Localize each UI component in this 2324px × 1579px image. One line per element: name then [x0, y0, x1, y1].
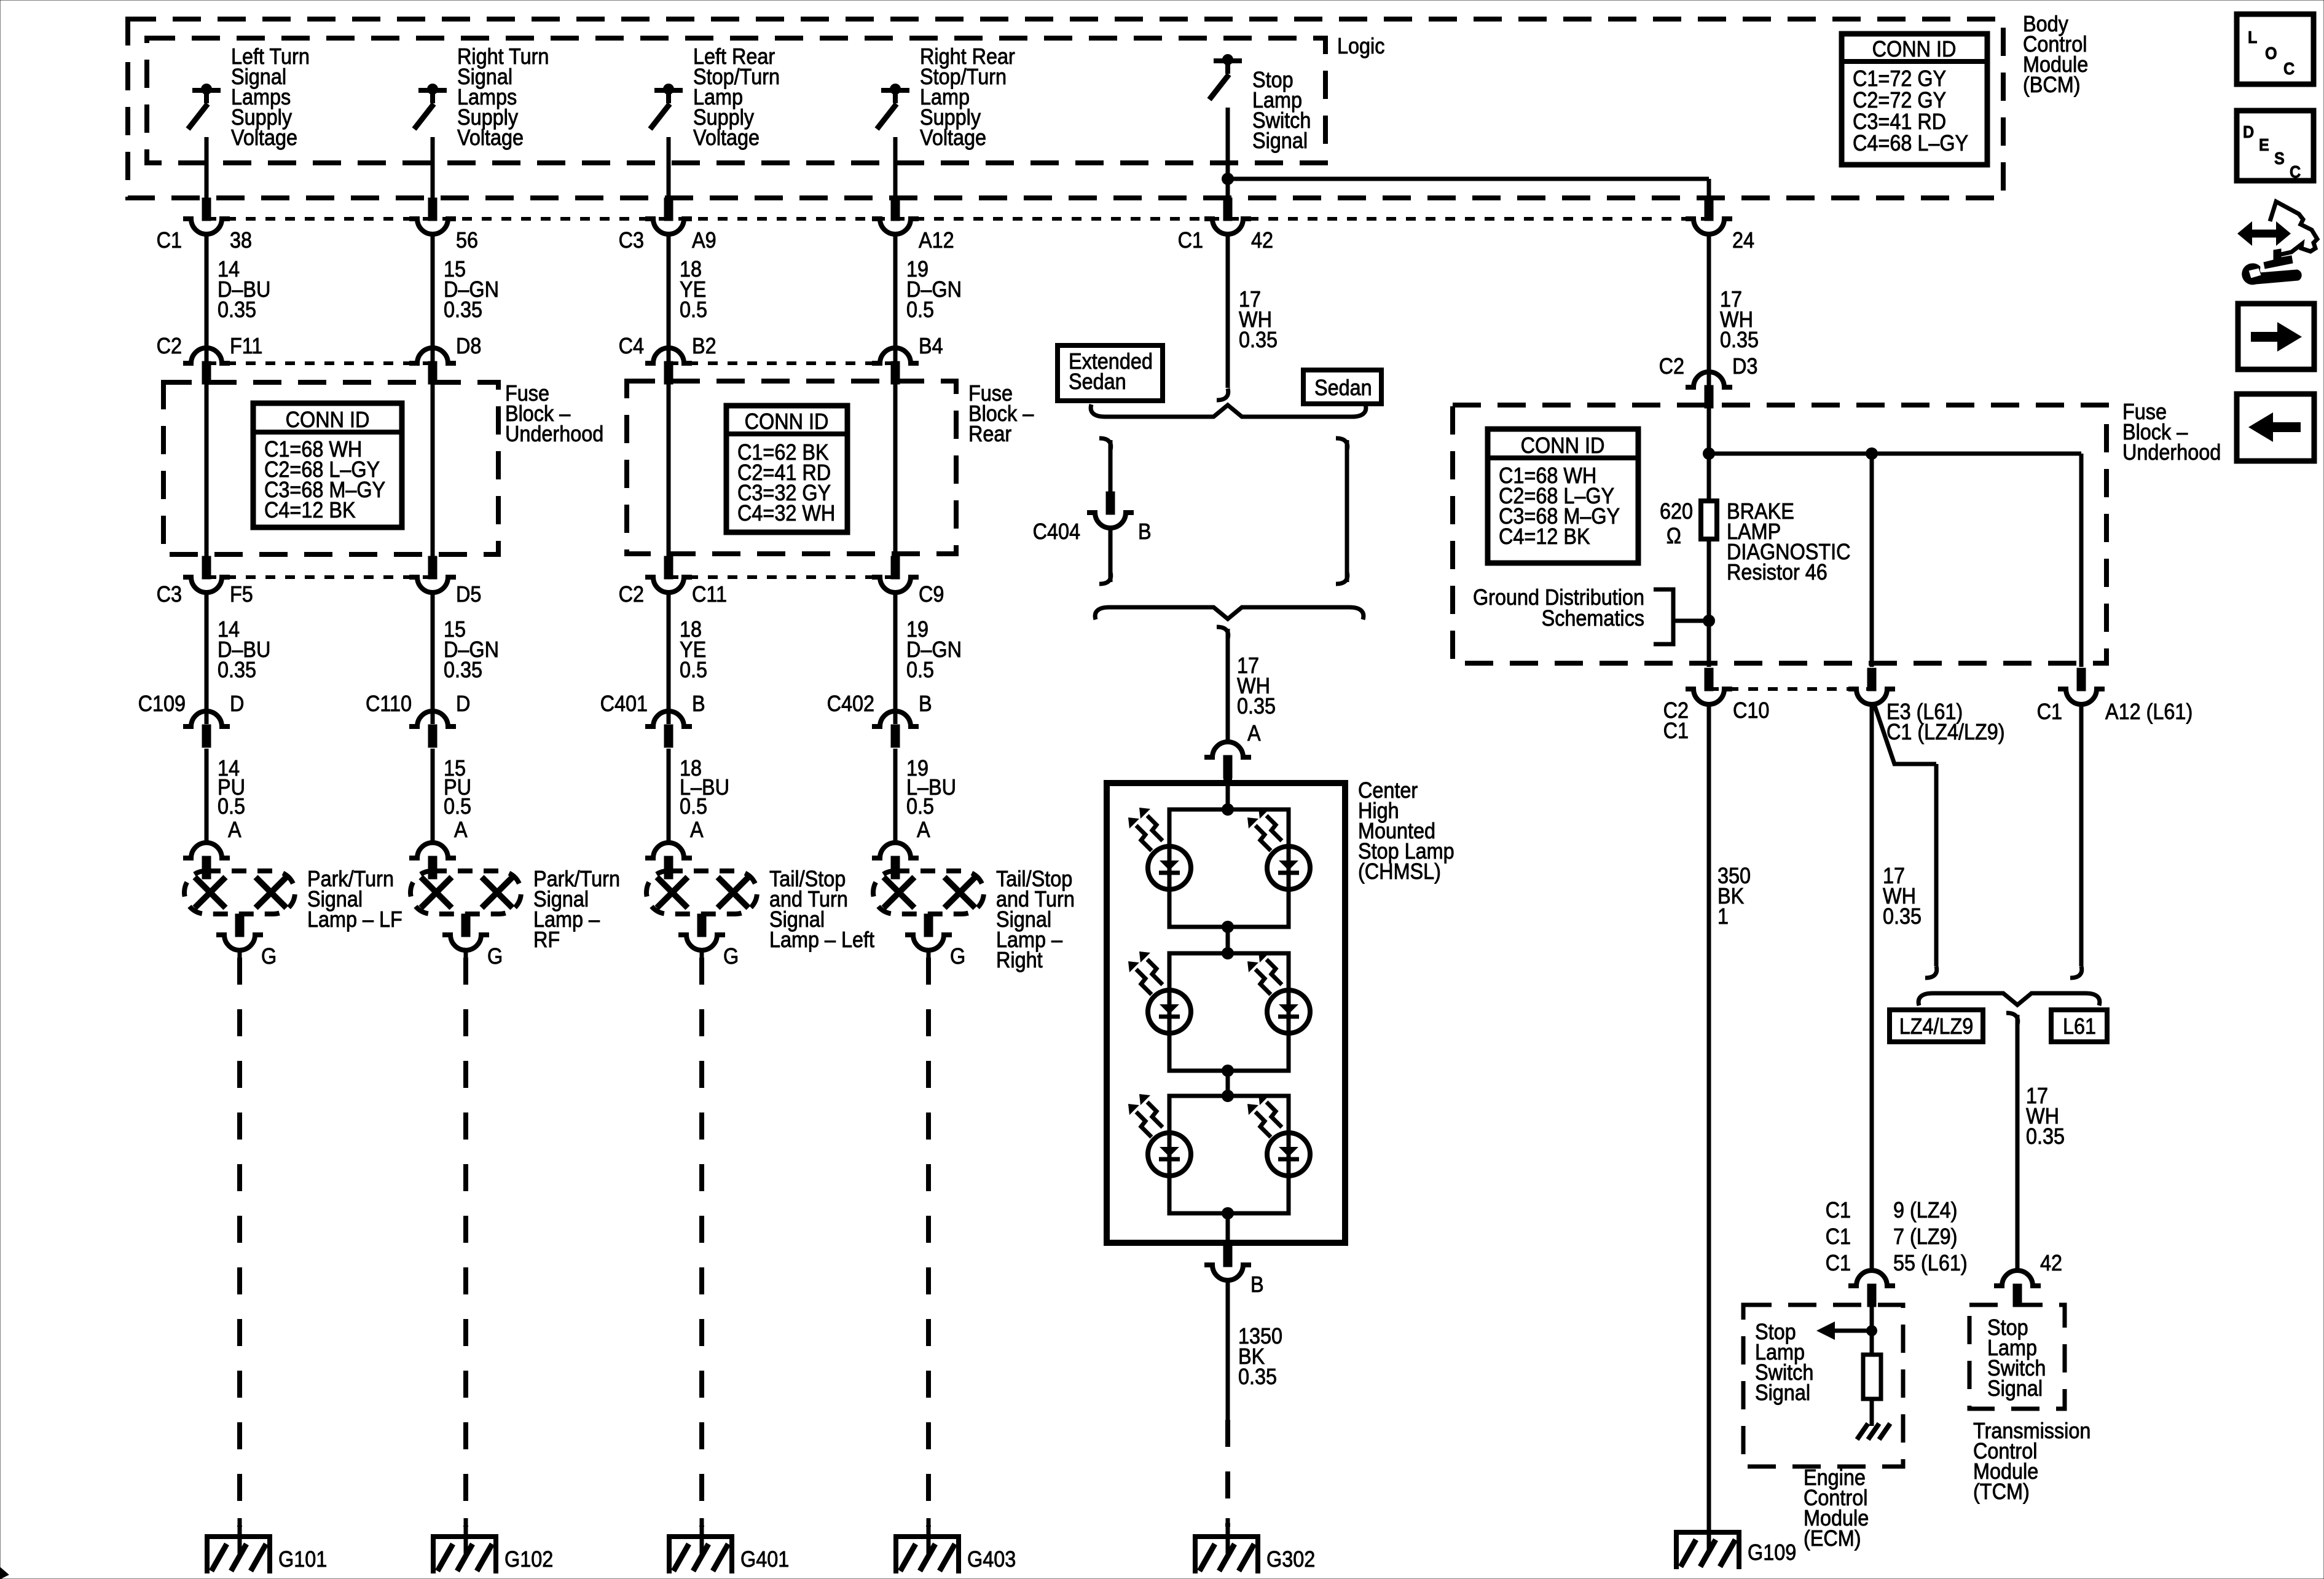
- svg-text:G109: G109: [1748, 1540, 1796, 1565]
- svg-text:Signal: Signal: [1252, 128, 1308, 153]
- connector F11 into fuse block (dome): [183, 348, 230, 363]
- BCM connector row dotted line: [206, 217, 1709, 221]
- Extended Sedan callout box: [1058, 345, 1163, 401]
- connector B4 into fuse block (dome): [872, 348, 919, 363]
- extended sedan branch wire lower: [1109, 527, 1113, 582]
- svg-text:620: 620: [1660, 499, 1693, 524]
- lamp 3 filament X right: [718, 877, 748, 908]
- svg-text:Signal: Signal: [1987, 1376, 2043, 1401]
- svg-text:LZ4/LZ9: LZ4/LZ9: [1899, 1014, 1974, 1039]
- lamp 1 filament X left: [195, 877, 226, 908]
- junction dot bottom cell 1: [1222, 921, 1234, 933]
- svg-text:A9: A9: [692, 228, 716, 253]
- inline connector C110 (dome): [409, 711, 456, 726]
- svg-text:Voltage: Voltage: [693, 125, 760, 150]
- svg-text:RF: RF: [533, 927, 560, 952]
- connector A into lamp 4 (dome): [872, 843, 919, 858]
- svg-text:G403: G403: [967, 1547, 1016, 1572]
- ground G403: [893, 1534, 961, 1539]
- svg-text:Rear: Rear: [968, 422, 1011, 446]
- ground distribution bracket: [1654, 589, 1673, 644]
- svg-text:C401: C401: [600, 691, 648, 716]
- svg-text:Signal: Signal: [1755, 1380, 1810, 1405]
- svg-text:C3: C3: [157, 582, 182, 607]
- svg-text:Logic: Logic: [1337, 34, 1384, 58]
- svg-text:24: 24: [1732, 228, 1754, 253]
- svg-text:(BCM): (BCM): [2023, 73, 2081, 97]
- svg-text:A: A: [917, 817, 930, 842]
- svg-text:9 (LZ4): 9 (LZ4): [1893, 1198, 1957, 1223]
- row3 connector dotted line rear: [669, 575, 895, 579]
- lamp 2 dashed capsule: [410, 871, 521, 914]
- svg-text:Underhood: Underhood: [2122, 440, 2221, 465]
- svg-text:0.5: 0.5: [218, 794, 245, 819]
- extended sedan branch wire: [1109, 440, 1113, 492]
- inline connector C402 (dome): [872, 711, 919, 726]
- wire hook below merge: [1217, 627, 1228, 639]
- svg-text:F5: F5: [230, 582, 253, 607]
- svg-text:C1: C1: [1663, 719, 1689, 743]
- connector A into lamp 2 (dome): [409, 843, 456, 858]
- CHMSL box: [1107, 783, 1345, 1243]
- svg-text:CONN ID: CONN ID: [1521, 433, 1605, 458]
- ground G109: [1674, 1530, 1741, 1535]
- switch S3 (Left Rear Stop/Turn supply): [654, 88, 683, 93]
- LED cell 1 loop: [1169, 809, 1289, 927]
- svg-text:C402: C402: [827, 691, 874, 716]
- wire segment below BCM (19 D–GN): [893, 233, 898, 362]
- junction dot bottom cell 2: [1222, 1065, 1234, 1077]
- E3 wire diagonal branch to LZ4/LZ9 input: [1874, 704, 1936, 764]
- connector C11 out of fuse block (cup): [664, 556, 673, 579]
- lamp 3 filament X left: [657, 877, 688, 908]
- svg-text:G101: G101: [278, 1547, 327, 1572]
- extended sedan branch wire upper hook: [1099, 438, 1111, 450]
- wire 350 BK down to G109: [1707, 703, 1711, 1535]
- LED cell 2 loop: [1169, 953, 1289, 1071]
- wire through resistor: [1707, 539, 1711, 667]
- svg-text:0.35: 0.35: [2026, 1124, 2065, 1149]
- connector pin 38 at BCM (cup): [202, 198, 211, 221]
- svg-text:Lamp – Left: Lamp – Left: [769, 927, 875, 952]
- svg-text:C4=32 WH: C4=32 WH: [737, 501, 835, 526]
- wire from switch S5 down to BCM connector: [1226, 108, 1230, 199]
- ECM pull resistor: [1863, 1355, 1881, 1399]
- lamp 2 filament X right: [482, 877, 512, 908]
- connector into ECM (dome): [1848, 1270, 1895, 1286]
- ground wire dashed to G101: [238, 949, 242, 958]
- junction dot bottom cell 3: [1222, 1207, 1234, 1219]
- page corner mark: [0, 1567, 9, 1579]
- E3 main wire down to ECM: [1870, 703, 1874, 1272]
- connector F5 out of fuse block (cup): [202, 556, 211, 579]
- wire segment below BCM (17 WH): [1226, 233, 1230, 388]
- svg-text:C1 (LZ4/LZ9): C1 (LZ4/LZ9): [1886, 720, 2005, 744]
- svg-text:L: L: [2248, 28, 2257, 47]
- junction dot at 738 on wire 6: [1703, 447, 1715, 460]
- A12 wire down to merge: [2079, 703, 2084, 966]
- switch S2 (Right Turn Signal supply): [418, 88, 447, 93]
- L61 callout box: [2051, 1010, 2107, 1042]
- svg-text:C4=12 BK: C4=12 BK: [1499, 524, 1590, 549]
- svg-text:C10: C10: [1733, 698, 1769, 723]
- svg-text:D: D: [230, 691, 244, 716]
- svg-text:42: 42: [1251, 228, 1273, 253]
- wire segment below BCM (15 D–GN): [431, 233, 435, 362]
- svg-text:C1: C1: [1826, 1251, 1851, 1275]
- svg-text:Resistor 46: Resistor 46: [1727, 560, 1827, 585]
- svg-text:CONN ID: CONN ID: [745, 409, 829, 434]
- ground G102: [431, 1534, 498, 1539]
- svg-text:C2: C2: [1659, 354, 1684, 379]
- horizontal distribution wire in fuse block: [1709, 452, 2081, 456]
- svg-text:Sedan: Sedan: [1069, 369, 1126, 394]
- svg-text:C404: C404: [1033, 519, 1080, 544]
- BCM CONN ID table: [1842, 34, 1987, 165]
- svg-text:C1: C1: [1826, 1198, 1851, 1223]
- svg-text:G: G: [950, 944, 965, 969]
- svg-text:A12: A12: [919, 228, 954, 253]
- connector G out of lamp 4 (cup): [924, 914, 933, 937]
- svg-text:55 (L61): 55 (L61): [1893, 1251, 1968, 1275]
- svg-text:C4=12 BK: C4=12 BK: [264, 498, 356, 522]
- wire from switch S4 down to BCM connector: [893, 137, 898, 199]
- svg-text:B: B: [692, 691, 705, 716]
- connector C9 out of fuse block (cup): [891, 556, 900, 579]
- lamp 4 dashed capsule: [873, 871, 984, 914]
- svg-text:D: D: [2243, 122, 2254, 142]
- ground G302: [1193, 1534, 1260, 1539]
- ECM internal wire: [1870, 1305, 1874, 1355]
- wire segment below BCM (14 D–BU): [205, 233, 209, 362]
- svg-text:0.35: 0.35: [1239, 328, 1278, 352]
- wire segment to inline connector (18 YE): [667, 591, 671, 724]
- ground wire dashed to G102: [464, 949, 468, 958]
- LED 1L: [1148, 846, 1191, 889]
- LED 2L: [1148, 990, 1191, 1033]
- svg-text:A: A: [228, 817, 241, 842]
- svg-text:0.35: 0.35: [444, 297, 482, 322]
- engine option merge bar: [1918, 993, 2100, 1006]
- svg-text:1: 1: [1717, 904, 1729, 929]
- svg-text:C1=72 GY: C1=72 GY: [1853, 66, 1946, 91]
- connector pin 24 at BCM (cup): [1705, 198, 1713, 221]
- junction dot on stop lamp signal wire: [1222, 173, 1234, 185]
- icon right arrow box: [2238, 304, 2314, 369]
- Fuse Block - Underhood dashed box (left): [163, 382, 498, 554]
- svg-text:0.35: 0.35: [1883, 904, 1922, 929]
- svg-text:Right: Right: [996, 948, 1043, 972]
- connector A into lamp 1 (dome): [183, 843, 230, 858]
- E3 branch wire down in fuse block: [1870, 454, 1874, 667]
- wire 17 WH to CHMSL: [1226, 629, 1230, 743]
- connector D5 out of fuse block (cup): [428, 556, 437, 579]
- LED 1R: [1267, 846, 1310, 889]
- svg-text:A: A: [1247, 721, 1261, 746]
- svg-text:G: G: [261, 944, 277, 969]
- Fuse Block Underhood right CONN ID table: [1488, 429, 1638, 563]
- connector C10 out of fuse block (cup): [1705, 668, 1713, 691]
- wire from switch S3 down to BCM connector: [667, 137, 671, 199]
- wire segment to lamp (18 L–BU): [667, 749, 671, 844]
- svg-text:C1: C1: [2037, 699, 2062, 724]
- ECM internal arrow: [1834, 1329, 1872, 1333]
- connector E3 out of fuse block (cup): [1867, 668, 1876, 691]
- ECM internal ground: [1857, 1423, 1868, 1439]
- wire from junction to right (to pin 24): [1228, 177, 1709, 181]
- connector A into lamp 3 (dome): [645, 843, 692, 858]
- svg-text:B4: B4: [919, 334, 943, 358]
- BCM Logic inner dashed box: [147, 38, 1325, 163]
- svg-text:C4: C4: [619, 334, 644, 358]
- svg-text:(ECM): (ECM): [1804, 1526, 1861, 1551]
- Fuse Block - Rear dashed box: [627, 381, 956, 554]
- brake lamp diagnostic resistor 46: [1701, 501, 1717, 539]
- switch S4 (Right Rear Stop/Turn supply): [881, 88, 909, 93]
- connector pin A9 at BCM (cup): [664, 198, 673, 221]
- option split bar (Extended Sedan / Sedan): [1091, 404, 1366, 417]
- icon LOC box: [2237, 14, 2314, 84]
- svg-text:0.35: 0.35: [218, 658, 256, 682]
- switch S5 (Stop Lamp Switch Signal): [1214, 58, 1242, 63]
- connector D3 into fuse block underhood right (dome): [1686, 372, 1732, 387]
- svg-text:0.5: 0.5: [680, 794, 707, 819]
- svg-text:C9: C9: [919, 582, 944, 607]
- svg-text:F11: F11: [230, 334, 262, 358]
- svg-text:C2: C2: [619, 582, 644, 607]
- connector pin 56 at BCM (cup): [428, 198, 437, 221]
- svg-text:C110: C110: [366, 691, 412, 716]
- ground G401: [667, 1534, 734, 1539]
- junction dot for E3 branch: [1866, 447, 1878, 460]
- option merge bar: [1095, 607, 1364, 620]
- wire through fuse block rear w3: [667, 383, 671, 558]
- fuse block underhood connector dotted line row2 left: [206, 361, 433, 365]
- ground wire dashed to G403: [927, 949, 931, 958]
- svg-text:S: S: [2274, 149, 2285, 168]
- junction dot top cell 1: [1222, 803, 1234, 816]
- icon DESC box: [2237, 111, 2314, 181]
- svg-text:L61: L61: [2063, 1014, 2096, 1039]
- connector A12 out of fuse block (cup): [2077, 668, 2086, 691]
- Sedan callout box: [1303, 370, 1381, 404]
- svg-text:D3: D3: [1732, 354, 1757, 379]
- LED 3R: [1267, 1133, 1310, 1176]
- svg-text:C2: C2: [157, 334, 182, 358]
- svg-text:0.35: 0.35: [1720, 328, 1759, 352]
- svg-text:0.5: 0.5: [680, 297, 707, 322]
- svg-text:G102: G102: [504, 1547, 553, 1572]
- sedan branch wire: [1336, 438, 1348, 450]
- connector pin A12 at BCM (cup): [891, 198, 900, 221]
- inline connector C109 (dome): [183, 711, 230, 726]
- svg-text:0.5: 0.5: [906, 658, 934, 682]
- svg-text:Ω: Ω: [1666, 524, 1681, 548]
- svg-text:(TCM): (TCM): [1973, 1479, 2030, 1504]
- ECM dashed box: [1743, 1305, 1903, 1467]
- connector G out of lamp 2 (cup): [461, 914, 470, 937]
- hook below merge: [2006, 1013, 2018, 1025]
- LED 3L: [1148, 1133, 1191, 1176]
- wire segment to inline connector (14 D–BU): [205, 591, 209, 724]
- connector into TCM (dome): [1994, 1270, 2041, 1286]
- connector D8 into fuse block (dome): [409, 348, 456, 363]
- svg-text:0.35: 0.35: [1238, 1364, 1277, 1389]
- Fuse Block Underhood CONN ID table: [253, 403, 402, 527]
- svg-text:B: B: [919, 691, 932, 716]
- svg-text:Lamp – LF: Lamp – LF: [307, 907, 402, 932]
- svg-text:B: B: [1138, 519, 1152, 544]
- svg-text:A: A: [454, 817, 468, 842]
- wire from switch S1 down to BCM connector: [205, 137, 209, 199]
- svg-text:B: B: [1250, 1272, 1264, 1297]
- junction dot top cell 3: [1222, 1090, 1234, 1102]
- svg-text:C11: C11: [692, 582, 727, 607]
- lamp 2 filament X left: [421, 877, 452, 908]
- icon left arrow box: [2237, 394, 2314, 461]
- Fuse Block - Underhood (right) dashed box: [1453, 405, 2106, 663]
- svg-text:0.5: 0.5: [444, 794, 471, 819]
- wire 1350 BK below CHMSL: [1226, 1279, 1230, 1420]
- svg-text:E: E: [2259, 135, 2269, 155]
- wire between cells 2-3: [1226, 1071, 1230, 1096]
- junction dot ground distribution: [1703, 615, 1715, 627]
- wire 17 WH to TCM: [2016, 1015, 2020, 1272]
- wire into CHMSL: [1226, 783, 1230, 809]
- lamp 1 filament X right: [256, 877, 286, 908]
- wire between cells 1-2: [1226, 927, 1230, 953]
- svg-text:Sedan: Sedan: [1314, 376, 1372, 400]
- svg-text:D8: D8: [456, 334, 481, 358]
- svg-text:7 (LZ9): 7 (LZ9): [1893, 1224, 1957, 1249]
- svg-text:O: O: [2265, 44, 2277, 63]
- svg-text:C1: C1: [1178, 228, 1203, 253]
- connector B2 into fuse block (dome): [645, 348, 692, 363]
- junction dot top cell 2: [1222, 947, 1234, 959]
- wire segment to inline connector (15 D–GN): [431, 591, 435, 724]
- TCM dashed box: [1969, 1305, 2065, 1409]
- wire through fuse block rear w4: [893, 383, 898, 558]
- svg-text:Underhood: Underhood: [505, 422, 603, 446]
- svg-text:G401: G401: [740, 1547, 789, 1572]
- svg-text:0.5: 0.5: [906, 297, 934, 322]
- lamp 4 filament X left: [884, 877, 914, 908]
- svg-text:0.5: 0.5: [680, 658, 707, 682]
- ECM internal wire below resistor: [1870, 1399, 1874, 1426]
- connector C404 B (cup): [1106, 492, 1115, 514]
- row3 connector dotted line left: [206, 575, 433, 579]
- connector G out of lamp 1 (cup): [235, 914, 244, 937]
- svg-text:C3: C3: [619, 228, 644, 253]
- svg-text:C1: C1: [157, 228, 182, 253]
- wire end hook before option split: [1217, 388, 1228, 400]
- inline connector C401 (dome): [645, 711, 692, 726]
- svg-text:Schematics: Schematics: [1542, 606, 1644, 631]
- svg-text:0.5: 0.5: [906, 794, 934, 819]
- svg-text:C109: C109: [138, 691, 186, 716]
- svg-text:D5: D5: [456, 582, 481, 607]
- wire segment below BCM (17 WH): [1707, 233, 1711, 386]
- svg-text:C3=41 RD: C3=41 RD: [1853, 109, 1946, 134]
- A12 branch wire down in fuse block: [2079, 454, 2084, 667]
- lamp 1 dashed capsule: [184, 871, 295, 914]
- svg-text:Voltage: Voltage: [231, 125, 297, 150]
- svg-text:(CHMSL): (CHMSL): [1358, 859, 1441, 884]
- wire cell3 to box bottom: [1226, 1213, 1230, 1243]
- svg-text:CONN ID: CONN ID: [1872, 37, 1957, 61]
- wire segment to lamp (14 PU): [205, 749, 209, 844]
- svg-text:56: 56: [456, 228, 478, 253]
- wire from D3 pin down into fuse block: [1707, 403, 1711, 502]
- svg-text:A: A: [690, 817, 704, 842]
- svg-text:42: 42: [2040, 1251, 2062, 1275]
- dashed wire to G302: [1225, 1420, 1230, 1527]
- icon diagnostic double arrow with wrench: [2249, 230, 2280, 238]
- wire through fuse block left w1: [205, 384, 209, 558]
- wire segment to lamp (19 L–BU): [893, 749, 898, 844]
- svg-text:G: G: [487, 944, 503, 969]
- svg-text:B2: B2: [692, 334, 716, 358]
- LZ4/LZ9 callout box: [1890, 1010, 1983, 1042]
- svg-text:C: C: [2290, 162, 2301, 182]
- svg-text:Voltage: Voltage: [920, 125, 986, 150]
- connector G out of lamp 3 (cup): [697, 914, 706, 937]
- ground G101: [205, 1534, 272, 1539]
- connector B out of CHMSL (cup): [1223, 1244, 1232, 1267]
- ground wire dashed to G401: [700, 949, 704, 958]
- svg-text:0.35: 0.35: [218, 297, 256, 322]
- fuse block rear connector dotted line row2: [669, 361, 895, 365]
- wire through fuse block left w2: [431, 384, 435, 558]
- LED 2R: [1267, 990, 1310, 1033]
- wire segment below BCM (18 YE): [667, 233, 671, 362]
- wire segment to inline connector (19 D–GN): [893, 591, 898, 724]
- wire segment to lamp (15 PU): [431, 749, 435, 844]
- svg-text:D: D: [456, 691, 470, 716]
- lamp 4 filament X right: [944, 877, 975, 908]
- row dotted line C10-E3: [1709, 687, 1872, 691]
- svg-text:C2=72 GY: C2=72 GY: [1853, 88, 1946, 112]
- svg-text:0.35: 0.35: [444, 658, 482, 682]
- svg-text:C4=68 L–GY: C4=68 L–GY: [1853, 131, 1968, 156]
- wire from switch S2 down to BCM connector: [431, 137, 435, 199]
- svg-text:38: 38: [230, 228, 252, 253]
- connector pin 42 at BCM (cup): [1223, 198, 1232, 221]
- svg-text:G302: G302: [1266, 1547, 1315, 1572]
- svg-text:C1: C1: [1826, 1224, 1851, 1249]
- lamp 3 dashed capsule: [646, 871, 757, 914]
- svg-text:0.35: 0.35: [1237, 694, 1276, 719]
- LED cell 3 loop: [1169, 1096, 1289, 1213]
- svg-text:G: G: [723, 944, 739, 969]
- svg-text:A12 (L61): A12 (L61): [2105, 699, 2192, 724]
- svg-text:CONN ID: CONN ID: [286, 408, 370, 432]
- junction dot ECM: [1866, 1325, 1877, 1336]
- connector A into CHMSL (dome): [1204, 742, 1251, 757]
- switch S1 (Left Turn Signal supply): [192, 88, 221, 93]
- svg-text:Voltage: Voltage: [457, 125, 524, 150]
- Fuse Block Rear CONN ID table: [726, 406, 847, 532]
- Body Control Module (BCM) outer dashed box: [128, 19, 2003, 198]
- svg-text:C: C: [2283, 59, 2295, 79]
